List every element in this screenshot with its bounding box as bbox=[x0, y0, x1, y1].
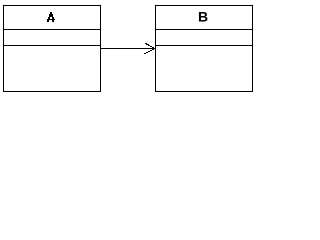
class A divider 1 bbox=[3, 29, 101, 31]
class B divider 1 bbox=[155, 29, 253, 31]
class A box bbox=[4, 6, 101, 92]
class B divider 2 bbox=[155, 45, 253, 47]
association arrow shaft A to B bbox=[101, 48, 155, 50]
arrowhead lower barb bbox=[144, 49, 154, 54]
class A title bbox=[47, 12, 55, 22]
arrowhead upper barb bbox=[145, 43, 154, 48]
class B box bbox=[156, 6, 253, 92]
svg-text:B: B bbox=[198, 9, 208, 25]
class A divider 2 bbox=[3, 45, 101, 47]
